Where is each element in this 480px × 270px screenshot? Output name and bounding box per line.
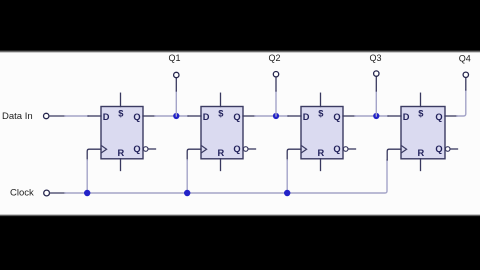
flip-flop U3 [301,107,356,159]
wire net U4 Q to Q4 riser [457,90,466,116]
flip-flop U4 [401,107,458,159]
junction clock at U3 [284,190,290,196]
svg-text:D: D [403,112,410,122]
wire U4 D pin stub [388,115,401,117]
svg-text:Data In: Data In [2,111,33,122]
wire U2 S pin stub [220,93,222,106]
svg-text:Q: Q [333,144,340,154]
svg-text:Q: Q [133,112,140,122]
svg-text:Q: Q [435,144,442,154]
wire U4 R pin stub [420,159,422,171]
terminal Q2 [273,72,278,77]
wire Q3 tap net [375,91,377,116]
terminal Data In [44,113,49,118]
terminal Q4 [463,72,468,77]
svg-text:Q: Q [333,112,340,122]
svg-text:Q: Q [435,112,442,122]
junction node Q2 [273,113,279,119]
svg-text:Q: Q [133,144,140,154]
wire terminal Q4 pin stub [465,78,467,90]
wire Data In pin stub [49,115,65,117]
wire U2 R pin stub [220,159,222,171]
wire net U2 Q to U3 D [255,115,288,117]
wire U3 D pin stub [288,115,301,117]
svg-text:$: $ [318,108,324,118]
svg-text:Q2: Q2 [269,53,281,63]
junction node Q3 [373,113,379,119]
svg-text:Q3: Q3 [370,53,382,63]
wire clock bus [65,160,387,193]
wire terminal Q2 pin stub [275,77,277,91]
svg-text:$: $ [118,108,124,118]
svg-text:Q: Q [233,112,240,122]
wire U1 Q pin stub [143,115,155,117]
wire terminal Q1 pin stub [175,78,177,91]
wire U4 clock pin stub [387,149,401,160]
junction clock at U2 [184,190,190,196]
wire U1 R pin stub [120,159,122,171]
junction node Q1 [173,113,179,119]
svg-text:D: D [103,112,110,122]
wire U1 D pin stub [88,115,101,117]
wire U2 D pin stub [188,115,201,117]
svg-text:$: $ [218,108,224,118]
svg-text:Q1: Q1 [169,53,181,63]
wire U2 clock pin stub [187,149,201,160]
wire U3 S pin stub [320,93,322,106]
wire Data In net to U1 [65,115,89,117]
wire terminal Q3 pin stub [375,76,377,91]
svg-text:D: D [203,112,210,122]
svg-text:Clock: Clock [10,188,34,199]
svg-text:R: R [218,148,225,158]
wire clock bus riser to U1 [86,160,88,193]
flip-flop U2 [201,107,256,159]
wire U4 Q pin stub [445,115,457,117]
svg-text:R: R [118,148,125,158]
terminal Q3 [374,71,379,76]
terminal Clock [44,190,50,196]
wire U4 S pin stub [420,93,422,106]
wire clock bus riser to U2 [186,160,188,193]
wire Q2 tap net [275,91,277,116]
wire U3 Q pin stub [343,115,355,117]
svg-text:Q4: Q4 [459,54,471,64]
wire Clock pin stub [50,192,65,194]
wire U2 Q pin stub [243,115,255,117]
svg-text:$: $ [418,108,424,118]
flip-flop U1 [101,107,156,159]
svg-text:R: R [318,148,325,158]
wire U1 clock pin stub [87,149,101,160]
wire U3 clock pin stub [287,149,301,160]
svg-text:Q: Q [233,144,240,154]
wire clock bus riser to U3 [286,160,288,193]
wire U1 S pin stub [120,93,122,106]
svg-text:R: R [418,148,425,158]
wire net U1 Q to U2 D [155,115,188,117]
junction clock at U1 [84,190,90,196]
wire U3 R pin stub [320,159,322,171]
wire Q1 tap net [175,91,177,116]
svg-text:D: D [303,112,310,122]
wire net U3 Q to U4 D [355,115,388,117]
terminal Q1 [174,72,179,77]
